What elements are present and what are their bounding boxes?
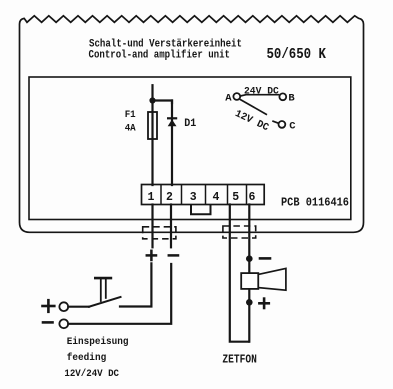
polarity + inline below terminal 1: [147, 254, 156, 257]
wire: + source to switch: [68, 306, 89, 308]
label - at feed: [43, 321, 53, 324]
diode D1 triangle: [168, 119, 177, 126]
connector (dashed) at terminals 5-6: [223, 226, 256, 238]
terminal divider 1|2: [160, 185, 162, 205]
wire: terminal 2 down through connector: [170, 205, 172, 248]
svg-text:C: C: [289, 120, 296, 132]
svg-text:feeding: feeding: [67, 352, 106, 364]
svg-text:A: A: [225, 92, 232, 104]
feed terminal + circle: [59, 302, 68, 311]
node: horn negative dot: [246, 255, 253, 262]
svg-text:24V DC: 24V DC: [244, 86, 279, 97]
wire: terminal 6 down through horn: [248, 205, 250, 342]
label + at horn: [259, 302, 268, 305]
voltage selector contact A circle: [233, 93, 240, 100]
horn bell: [258, 268, 286, 290]
svg-text:ZETFON: ZETFON: [222, 354, 257, 367]
svg-text:50/650 K: 50/650 K: [267, 46, 327, 63]
wire: top stub into fuse branch: [151, 85, 153, 100]
wire: terminal 5 down to horn return: [230, 205, 249, 342]
label + at feed: [43, 305, 55, 308]
wire: fuse branch down to terminal 1: [151, 101, 153, 186]
wiper A to B (24V position): [240, 95, 279, 96]
svg-text:6: 6: [249, 191, 256, 204]
node: junction dot at fuse/diode branch: [149, 97, 155, 103]
outer unit enclosure box with zigzag top edge: [20, 16, 364, 233]
svg-text:2: 2: [166, 191, 173, 204]
feed terminal - circle: [59, 319, 68, 328]
svg-text:4: 4: [213, 191, 220, 204]
wire: branch from node to diode column: [153, 101, 173, 104]
node: horn positive dot: [246, 299, 253, 306]
fuse F1 body: [148, 112, 157, 139]
svg-text:B: B: [288, 93, 295, 105]
terminal block body: [142, 185, 265, 205]
svg-text:D1: D1: [184, 118, 196, 130]
wiper A to C (12V position): [240, 99, 267, 115]
wire: terminal 1 down through connector: [151, 205, 153, 248]
svg-text:Control-and amplifier unit: Control-and amplifier unit: [89, 50, 231, 62]
label - at horn: [260, 257, 270, 260]
svg-text:F1: F1: [125, 110, 136, 121]
push button cap: [95, 277, 111, 280]
diode D1 cathode bar: [167, 117, 177, 119]
voltage selector contact C circle: [279, 121, 286, 128]
push button plunger stem left: [100, 280, 102, 302]
jumper between terminals 3 and 4: [191, 205, 211, 215]
svg-text:12V/24V DC: 12V/24V DC: [64, 368, 119, 380]
polarity - inline below terminal 2: [169, 254, 178, 257]
svg-text:PCB 0116416: PCB 0116416: [281, 196, 349, 209]
svg-text:1: 1: [148, 191, 155, 204]
wire: + feed riser: [120, 263, 151, 306]
terminal divider 5|6: [246, 185, 248, 205]
push button plunger stem right: [105, 280, 107, 298]
terminal divider 4|5: [227, 185, 229, 205]
terminal divider 2|3: [181, 185, 183, 205]
svg-text:3: 3: [190, 191, 197, 204]
connector (dashed) at terminals 1-2: [143, 227, 176, 239]
svg-text:Einspeisung: Einspeisung: [67, 336, 129, 348]
inner control/amplifier unit box: [29, 77, 351, 220]
voltage selector contact B circle: [279, 93, 286, 100]
svg-text:5: 5: [232, 191, 239, 204]
terminal divider 3|4: [205, 185, 207, 205]
svg-text:4A: 4A: [125, 124, 137, 135]
switch blade: [89, 297, 121, 307]
wire: - feed riser: [68, 264, 171, 324]
wire stub into C: [272, 121, 278, 123]
horn driver box: [241, 273, 258, 289]
wire: diode column down to terminal 2: [171, 101, 173, 186]
